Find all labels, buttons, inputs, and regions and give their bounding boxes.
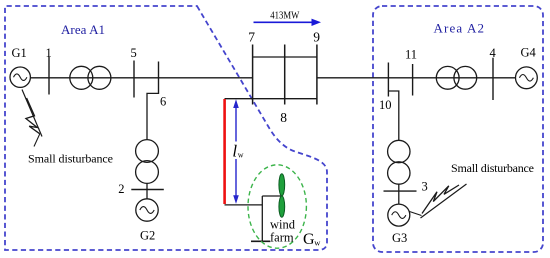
svg-text:w: w (314, 238, 321, 248)
svg-text:1: 1 (46, 46, 52, 60)
svg-text:8: 8 (280, 110, 287, 125)
wire wind farm mast vertical (261, 196, 263, 241)
transformer T4 (436, 66, 459, 89)
wire red line to wind farm node (225, 204, 263, 206)
svg-text:G4: G4 (521, 46, 537, 60)
generator G2 (136, 199, 158, 221)
svg-text:G3: G3 (392, 231, 407, 245)
svg-text:Area A1: Area A1 (61, 22, 105, 37)
wire bus10 to transformer T3 (388, 91, 398, 141)
bus 10 (387, 63, 389, 97)
wire main line area A2 (317, 77, 516, 79)
svg-text:6: 6 (160, 95, 166, 109)
generator G4 (516, 67, 538, 89)
svg-text:413MW: 413MW (270, 10, 299, 21)
generator G3 (388, 204, 410, 226)
bus 11 (412, 64, 414, 96)
svg-text:2: 2 (118, 182, 124, 196)
bus 5 (133, 61, 135, 98)
small disturbance lightning at G3 (410, 184, 467, 218)
svg-text:Small disturbance: Small disturbance (451, 161, 534, 175)
bus 4 (492, 58, 494, 100)
svg-text:4: 4 (490, 46, 497, 60)
wire tie line upper circuit 7-9 (253, 56, 317, 58)
svg-text:5: 5 (131, 46, 137, 60)
svg-text:G: G (303, 231, 315, 248)
wire tie line lower circuit with wind tap (225, 98, 317, 100)
svg-text:G2: G2 (140, 229, 155, 243)
wire to turbine hub (262, 195, 281, 197)
bus 2 (131, 189, 164, 191)
area A2 dashed boundary (373, 6, 543, 252)
small disturbance lightning at G1 (22, 90, 42, 147)
svg-text:3: 3 (422, 180, 428, 194)
svg-text:w: w (238, 151, 244, 160)
bus 1 (48, 57, 50, 95)
wire bus6 to transformer T2 (147, 93, 159, 140)
bus 7 (252, 45, 254, 105)
wind feeder distance red line (223, 99, 226, 204)
svg-text:G1: G1 (12, 46, 27, 60)
bus 9 (316, 45, 318, 105)
wire T2 to bus 2 (146, 183, 148, 198)
svg-text:l: l (232, 142, 237, 161)
area A1 dashed boundary (5, 6, 327, 250)
generator G1 (10, 67, 30, 87)
svg-text:farm: farm (270, 231, 294, 245)
power flow arrow 413MW (254, 21, 313, 23)
transformer T1 (70, 66, 93, 89)
wind farm bus bar (ground bar) (251, 240, 270, 242)
wind turbine blades Gw (279, 174, 285, 196)
svg-text:11: 11 (405, 48, 417, 62)
wire T3 to bus 3 (398, 184, 400, 204)
svg-text:9: 9 (313, 30, 320, 45)
svg-text:10: 10 (379, 98, 392, 112)
wire main line area A1 (30, 77, 252, 79)
wind farm dashed green ellipse (248, 165, 306, 248)
dimension arrow lw (double headed) (235, 102, 237, 142)
bus 3 (384, 190, 417, 192)
svg-text:wind: wind (270, 218, 296, 232)
transformer T3 (388, 140, 410, 162)
transformer T2 (136, 140, 159, 163)
bus 8 (284, 45, 286, 105)
svg-text:Small disturbance: Small disturbance (28, 152, 113, 166)
bus 6 (158, 62, 160, 95)
svg-text:7: 7 (248, 30, 255, 45)
